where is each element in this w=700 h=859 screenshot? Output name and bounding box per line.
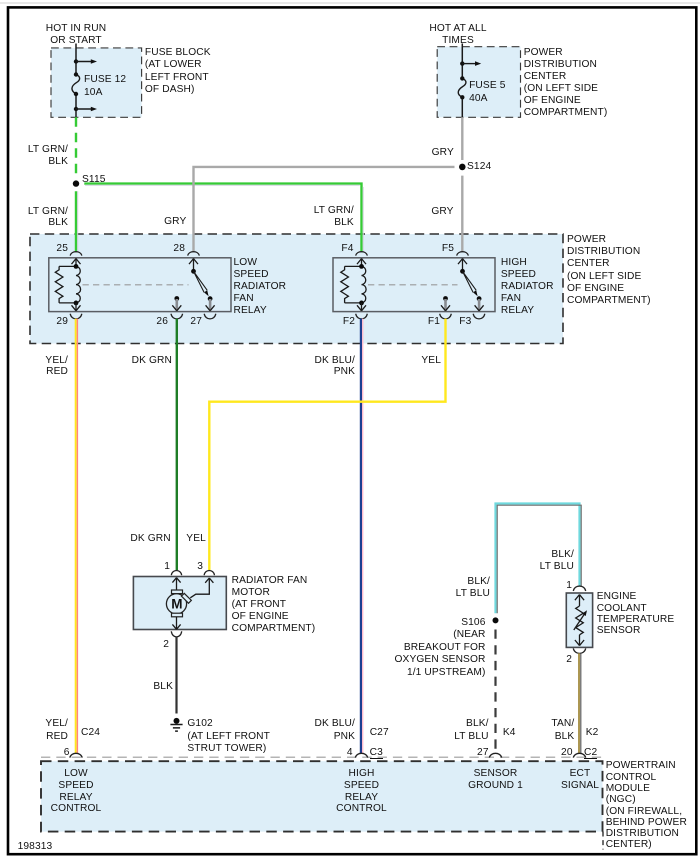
value label FUSE 5 40A bbox=[469, 80, 505, 105]
label engine coolant temperature sensor bbox=[597, 591, 675, 637]
wire from HOT AT ALL TIMES feed into fuse 5 bbox=[461, 44, 463, 118]
PCM connector row thin dashed line bbox=[41, 756, 603, 758]
relay K2 switch bbox=[441, 259, 484, 311]
fuse block box (FUSE BLOCK AT LOWER LEFT FRONT OF DASH) bbox=[51, 48, 142, 117]
label low speed radiator fan relay bbox=[234, 257, 287, 317]
pin label 1 motor bbox=[164, 561, 170, 573]
connector arc motor pin 2 bbox=[171, 631, 181, 637]
pin label F4 bbox=[341, 243, 353, 255]
pin label 3 motor bbox=[197, 561, 203, 573]
power distribution center fuse box (FUSE 5) bbox=[437, 47, 520, 118]
wire from HOT IN RUN feed into fuse 12 bbox=[75, 44, 77, 118]
power distribution center dashed box bbox=[30, 234, 563, 344]
connector arc pin F5 bbox=[457, 252, 469, 256]
diagram number 198313 bbox=[18, 841, 53, 853]
connector arc pin 29 bbox=[70, 314, 82, 319]
label HOT IN RUN OR START bbox=[40, 23, 112, 47]
label ect signal bbox=[535, 768, 625, 791]
pin label 28 bbox=[173, 243, 185, 255]
connector label C3 underlined bbox=[370, 747, 383, 759]
wire DK BLU/PNK from relay F2 to PCM pin 4 bbox=[361, 319, 363, 754]
pin label 26 bbox=[156, 316, 168, 328]
connector arc pin 27 bbox=[204, 314, 216, 319]
connector arc pin F3 bbox=[473, 314, 485, 319]
value label FUSE 12 10A bbox=[84, 74, 126, 99]
pin label 27 bbox=[190, 316, 202, 328]
wire label BLK/LT BLU at PCM bbox=[454, 718, 488, 744]
node S124 bbox=[459, 164, 466, 171]
pin label F5 bbox=[442, 243, 454, 255]
label fuse block location bbox=[145, 47, 211, 95]
node label S106 with location bbox=[394, 617, 485, 680]
connector label C27 bbox=[370, 727, 389, 739]
wire DK GRN from pin 26 to fan motor pin 1 bbox=[176, 319, 178, 570]
node label S124 bbox=[467, 161, 491, 173]
wire BLK/LT BLU dashed from S106 to PCM pin 27 bbox=[494, 630, 496, 754]
connector arc pin 26 bbox=[171, 314, 183, 319]
wire GRY from fuse 5 through S124 to relay F5 and pin 28 bbox=[194, 117, 463, 252]
wire label LT GRN/BLK upper bbox=[28, 144, 68, 167]
label power distribution center (relays) bbox=[567, 234, 651, 308]
wire LT GRN/BLK net from S115 to pin 25 and relay F4 bbox=[76, 184, 363, 253]
fuse F12 element bbox=[72, 75, 80, 95]
label high speed radiator fan relay bbox=[501, 257, 554, 317]
pin label 1 ECT bbox=[566, 580, 572, 592]
wire label BLK/LT BLU at ECT pin 1 bbox=[540, 549, 574, 573]
relay K1 coil with parallel resistor bbox=[55, 259, 80, 311]
wire LT GRN/BLK dashed from fuse block to S115 bbox=[75, 117, 77, 176]
pin label 2 ECT bbox=[566, 654, 572, 666]
connector arc motor pin 1 bbox=[171, 570, 181, 575]
connector arc pin F1 bbox=[440, 314, 452, 319]
label G102 ground location bbox=[187, 718, 270, 756]
wire label DK BLU/PNK below relay bbox=[315, 355, 355, 378]
node S115 bbox=[73, 180, 79, 186]
wire label LT GRN/BLK at pin 25 bbox=[28, 206, 68, 229]
pin label 2 motor bbox=[163, 639, 169, 651]
relay K2 high speed radiator fan relay box bbox=[333, 258, 495, 312]
pin label 20 PCM bbox=[561, 747, 573, 759]
label HOT AT ALL TIMES bbox=[422, 23, 494, 47]
label high speed relay control bbox=[317, 768, 407, 815]
wire label DK GRN below relay bbox=[132, 355, 172, 367]
connector arc pin 28 bbox=[188, 252, 200, 256]
pin label F1 bbox=[428, 316, 440, 328]
relay K1 coil-to-switch dashed link bbox=[83, 284, 189, 286]
connector label K2 bbox=[586, 727, 599, 739]
pin label F3 bbox=[459, 316, 471, 328]
wire BLK/LT BLU from S106 to ECT sensor pin 1 bbox=[496, 504, 582, 614]
node S106 bbox=[493, 617, 499, 623]
connector arc ECT pin 1 bbox=[573, 586, 585, 591]
connector arc pin F4 bbox=[356, 252, 368, 256]
label low speed relay control bbox=[31, 768, 121, 815]
wire label DK BLU/PNK at PCM bbox=[315, 718, 355, 744]
junction dots in fuse block bbox=[74, 59, 78, 111]
wire label DK GRN above motor bbox=[130, 533, 170, 545]
wire label YEL/RED below relay bbox=[45, 355, 68, 378]
wire label YEL/RED at PCM bbox=[45, 718, 68, 743]
top gray strip bbox=[0, 2, 700, 4]
powertrain control module dashed box bbox=[41, 761, 603, 831]
relay K1 switch bbox=[172, 259, 214, 311]
pin label 4 PCM bbox=[347, 747, 353, 759]
connector arc PCM pin 4 bbox=[355, 753, 367, 757]
wire label LT GRN/BLK at F4 bbox=[314, 205, 354, 229]
relay K2 coil-to-switch dashed link bbox=[368, 284, 458, 286]
label sensor ground 1 bbox=[451, 768, 541, 791]
pin label 6 PCM bbox=[64, 747, 70, 759]
connector label K4 bbox=[503, 727, 516, 739]
motor M1 symbol bbox=[166, 578, 213, 630]
pin label 27 PCM bbox=[477, 747, 489, 759]
label radiator fan motor bbox=[232, 575, 316, 635]
engine coolant temperature sensor box bbox=[566, 593, 592, 647]
ECT thermistor element bbox=[574, 595, 587, 646]
wire label TAN/BLK at PCM bbox=[551, 718, 574, 744]
connector label C24 bbox=[81, 727, 100, 739]
junction dots in fuse 5 bbox=[460, 61, 464, 99]
wire label YEL below relay bbox=[421, 355, 441, 367]
PCM label bracket dashes bbox=[602, 832, 604, 850]
relay K2 coil with parallel resistor bbox=[341, 259, 366, 311]
wire label GRY at pin 28 bbox=[164, 216, 186, 228]
wire label YEL above motor bbox=[186, 533, 206, 545]
label power distribution center (fuse 5) bbox=[524, 47, 608, 119]
radiator fan motor box bbox=[133, 577, 226, 630]
wire label BLK bbox=[153, 681, 173, 693]
label powertrain control module bbox=[606, 760, 687, 850]
branch arrows in fuse block bbox=[76, 59, 97, 111]
wire label BLK/LT BLU at S106 riser bbox=[456, 576, 490, 599]
fuse F5 element bbox=[458, 78, 466, 97]
wire BLK from motor pin 2 to G102 bbox=[175, 637, 177, 714]
connector arc PCM pin 20 bbox=[573, 753, 585, 757]
branch arrow in fuse 5 box bbox=[462, 61, 481, 66]
wire YEL from relay F1 to fan motor pin 3 bbox=[209, 319, 445, 570]
wire label GRY at F5 bbox=[431, 206, 453, 218]
connector arc pin F2 bbox=[356, 314, 368, 319]
relay K1 low speed radiator fan relay box bbox=[49, 258, 231, 312]
pin label 25 bbox=[56, 243, 68, 255]
connector arc motor pin 3 bbox=[204, 570, 214, 575]
connector label C2 underlined bbox=[584, 747, 597, 759]
wire label GRY upper bbox=[432, 147, 454, 159]
connector arc ECT pin 2 bbox=[573, 648, 585, 653]
connector arc PCM pin 6 bbox=[70, 753, 82, 757]
wire TAN/BLK from ECT pin 2 to PCM pin 20 bbox=[579, 653, 581, 753]
connector arc PCM pin 27 bbox=[489, 753, 501, 757]
wire YEL/RED from pin 29 to PCM pin 6 bbox=[76, 319, 78, 754]
ground G102 bbox=[170, 718, 182, 731]
pin label 29 bbox=[56, 316, 68, 328]
connector arc pin 25 bbox=[70, 252, 82, 256]
pin label F2 bbox=[343, 316, 355, 328]
svg-text:M: M bbox=[171, 597, 182, 612]
node label S115 bbox=[82, 174, 106, 186]
